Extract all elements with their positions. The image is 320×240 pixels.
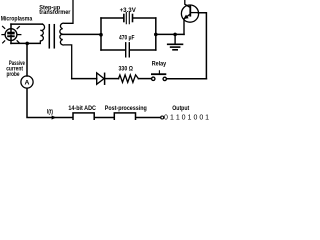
svg-text:1: 1 <box>188 115 192 120</box>
svg-text:I(t): I(t) <box>47 110 53 116</box>
svg-text:Microplasma: Microplasma <box>1 15 33 22</box>
svg-text:Output: Output <box>172 105 190 112</box>
svg-text:Relay: Relay <box>152 60 167 67</box>
svg-text:14-bit ADC: 14-bit ADC <box>68 105 96 112</box>
svg-text:0: 0 <box>199 115 203 120</box>
svg-text:transformer: transformer <box>39 9 71 16</box>
svg-text:330 Ω: 330 Ω <box>119 66 133 73</box>
svg-text:1: 1 <box>176 115 180 120</box>
svg-text:Post-processing: Post-processing <box>105 105 147 112</box>
svg-text:0: 0 <box>193 115 197 120</box>
svg-text:0: 0 <box>182 115 186 120</box>
svg-text:1: 1 <box>205 115 209 120</box>
svg-text:+3.3V: +3.3V <box>120 7 137 14</box>
svg-text:0: 0 <box>164 115 168 120</box>
svg-text:probe: probe <box>7 71 20 78</box>
svg-text:A: A <box>25 79 30 86</box>
svg-text:470 μF: 470 μF <box>119 35 135 42</box>
svg-text:1: 1 <box>170 115 174 120</box>
